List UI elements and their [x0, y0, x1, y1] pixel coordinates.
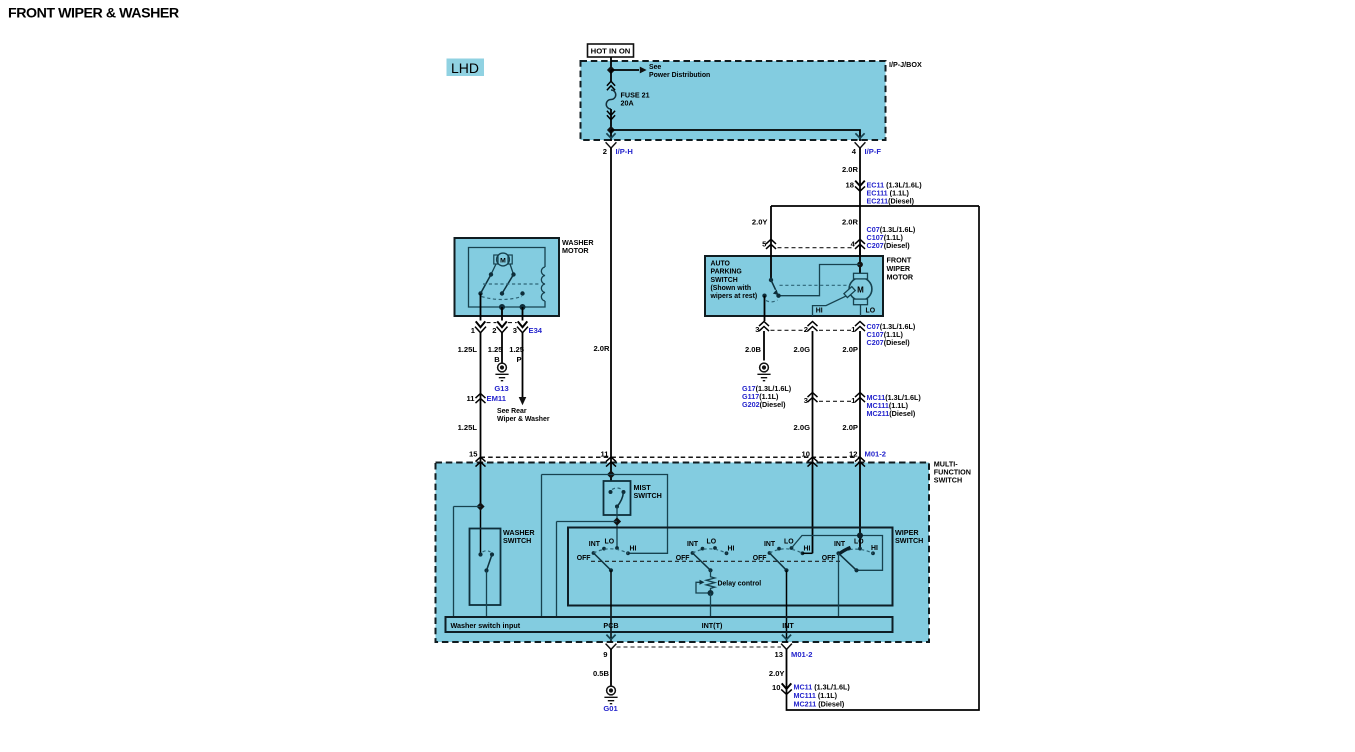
- motor brush tab top: [854, 273, 868, 279]
- motor brush tabs: [494, 255, 498, 264]
- wire from HOT IN ON down: [610, 57, 612, 70]
- svg-text:2.0P: 2.0P: [842, 345, 858, 354]
- washer motor coil: [541, 267, 545, 301]
- contact dot g4 lower: [854, 568, 858, 572]
- svg-text:See Rear: See Rear: [497, 408, 527, 415]
- svg-text:P: P: [516, 355, 521, 364]
- svg-text:LHD: LHD: [451, 60, 479, 76]
- svg-text:G13: G13: [494, 384, 508, 393]
- pin 13 box exit: [781, 635, 792, 650]
- svg-text:18: 18: [846, 180, 854, 189]
- wire bus inside I/P box: [611, 130, 860, 141]
- dashed arc g2: [693, 549, 727, 553]
- park switch contacts lower: [762, 294, 766, 298]
- arrow See Power Distribution: [640, 67, 647, 74]
- mist switch dashed arc: [612, 488, 622, 490]
- wire washer branch left: [454, 507, 481, 618]
- washer switch contacts: [478, 552, 482, 556]
- wiper switch box: [568, 528, 893, 606]
- wire pin4 into motor: [859, 245, 861, 274]
- contacts g1: [592, 551, 596, 555]
- svg-text:11: 11: [466, 394, 475, 403]
- wire arm g3 to INT: [786, 570, 788, 642]
- fuse FUSE 21 20A symbol: [606, 81, 616, 130]
- mist switch box: [604, 481, 631, 515]
- wire 1.25L down to EM11: [480, 333, 482, 507]
- wire 2.0B to ground: [763, 331, 765, 361]
- washer switch box: [470, 529, 501, 606]
- motor M circle (front wiper): [849, 278, 872, 301]
- node junction below HOT IN ON: [607, 66, 615, 74]
- tie line connectors 5-4: [778, 247, 854, 249]
- motor M circle (washer): [497, 253, 510, 266]
- wire down to pin 2: [610, 130, 612, 141]
- svg-text:3: 3: [804, 396, 808, 405]
- connector C07 labels (lower): [867, 322, 916, 347]
- svg-text:20A: 20A: [621, 99, 634, 108]
- svg-text:INT(T): INT(T): [702, 621, 723, 630]
- svg-text:LO: LO: [784, 539, 794, 546]
- contacts g3: [768, 551, 772, 555]
- svg-text:MOTOR: MOTOR: [887, 272, 914, 281]
- svg-text:Power Distribution: Power Distribution: [649, 72, 710, 79]
- wire pin13 down: [786, 649, 788, 694]
- tie line pins 9-13: [617, 646, 782, 648]
- wiper switch label: [895, 528, 923, 545]
- switch arms (washer motor): [481, 275, 514, 294]
- node junction pin11: [607, 470, 615, 478]
- svg-text:LO: LO: [866, 308, 876, 315]
- svg-text:INT: INT: [589, 541, 601, 548]
- svg-text:HOT IN ON: HOT IN ON: [591, 47, 631, 56]
- svg-text:G01: G01: [603, 704, 618, 713]
- svg-text:M: M: [500, 258, 506, 265]
- svg-text:wipers at rest): wipers at rest): [710, 293, 758, 300]
- ground G13: [495, 363, 508, 381]
- washer motor inner frame: [469, 248, 546, 308]
- dashed arc g4: [839, 549, 874, 553]
- svg-text:G202(Diesel): G202(Diesel): [742, 400, 786, 409]
- svg-text:2: 2: [804, 325, 808, 334]
- wire top rail to right loop: [771, 205, 979, 207]
- svg-text:9: 9: [603, 650, 607, 659]
- washer switch lower contact: [484, 568, 488, 572]
- wire pin10 column inside MFS: [812, 462, 814, 554]
- svg-text:SWITCH: SWITCH: [503, 536, 531, 545]
- wire washer pin1: [480, 294, 482, 321]
- wire mist out: [616, 507, 618, 549]
- pin1 symbol: [855, 322, 865, 332]
- wire washer pin2: [501, 307, 503, 321]
- svg-text:Washer switch input: Washer switch input: [451, 621, 521, 630]
- contacts g2: [691, 551, 695, 555]
- svg-text:MC211 (Diesel): MC211 (Diesel): [794, 700, 845, 709]
- svg-text:11: 11: [600, 450, 609, 459]
- washer switch arm: [487, 555, 493, 571]
- svg-text:I/P-J/BOX: I/P-J/BOX: [889, 60, 922, 69]
- connector 12 symbol: [855, 457, 865, 467]
- wiper switch gang 3 (INT): [753, 533, 883, 643]
- washer motor block: [455, 238, 560, 316]
- svg-text:I/P-H: I/P-H: [616, 147, 633, 156]
- wire to See Power Distribution: [611, 69, 639, 71]
- multi-function switch block: [436, 463, 930, 643]
- svg-text:HI: HI: [816, 308, 823, 315]
- wire 1.25B down to G13: [501, 333, 503, 363]
- svg-text:OFF: OFF: [753, 555, 767, 562]
- svg-text:FRONT WIPER & WASHER: FRONT WIPER & WASHER: [8, 6, 179, 22]
- connector 4 symbol: [855, 239, 865, 249]
- wire LO brush out: [860, 305, 862, 316]
- wire pin9 to ground: [610, 649, 612, 686]
- pin 2 I/P-H box exit: [606, 133, 617, 148]
- mechanical dashed link: [483, 283, 541, 285]
- wire washer switch out: [486, 571, 488, 618]
- svg-text:2.0G: 2.0G: [794, 345, 811, 354]
- ground G17 labels: [742, 384, 792, 409]
- connector C07 labels (upper): [867, 225, 916, 250]
- connector 10 symbol: [808, 457, 818, 467]
- connector EC11 labels: [867, 181, 923, 206]
- auto parking switch label: [710, 260, 758, 300]
- park switch contact top: [769, 278, 773, 282]
- wire park switch to motor node: [779, 265, 861, 296]
- wire pin11 column inside MFS: [610, 462, 612, 482]
- svg-text:1.25: 1.25: [509, 345, 525, 354]
- svg-text:OFF: OFF: [822, 555, 836, 562]
- motor brush tab bottom: [854, 299, 868, 305]
- wire washer pin3: [522, 307, 524, 321]
- arrow see rear wiper washer: [519, 397, 527, 405]
- svg-text:2.0Y: 2.0Y: [769, 669, 785, 678]
- svg-text:PARKING: PARKING: [711, 269, 742, 276]
- tie line E34: [487, 322, 517, 324]
- ground G01: [604, 686, 617, 704]
- svg-text:2.0R: 2.0R: [593, 344, 610, 353]
- wire pin15 column inside MFS: [480, 462, 482, 507]
- wire pin10 to HI contact: [803, 552, 813, 554]
- ground G17: [757, 363, 770, 381]
- mist switch contacts: [609, 490, 613, 494]
- svg-text:1.25: 1.25: [488, 345, 504, 354]
- LHD badge: [447, 59, 485, 77]
- dashed arc g3: [770, 549, 803, 553]
- svg-text:1.25L: 1.25L: [458, 423, 478, 432]
- HOT IN ON box: [588, 44, 634, 57]
- svg-text:13: 13: [775, 650, 783, 659]
- wire pin11 branch left: [542, 475, 612, 618]
- tie line MFS top connectors: [481, 456, 862, 458]
- wire pin12 column inside MFS: [859, 462, 861, 549]
- wire LO g3 to LO rail: [792, 536, 883, 571]
- connector EM11 symbol: [476, 394, 486, 404]
- svg-text:Wiper & Washer: Wiper & Washer: [497, 416, 550, 423]
- svg-text:OFF: OFF: [676, 555, 690, 562]
- svg-text:HI: HI: [871, 545, 878, 552]
- mist switch arm: [617, 492, 624, 507]
- svg-text:10: 10: [772, 683, 780, 692]
- wire delay to INT(T): [710, 593, 712, 617]
- front wiper motor label: [887, 255, 914, 281]
- wire park left contact down: [764, 296, 766, 321]
- gang dashed line: [591, 560, 842, 562]
- wire 2.0Y into park switch: [770, 255, 772, 280]
- tie line motor connector: [771, 329, 854, 331]
- thin arm g4: [839, 553, 857, 570]
- svg-text:M01-2: M01-2: [865, 450, 887, 459]
- svg-text:INT: INT: [782, 621, 794, 630]
- wire right loop: [787, 206, 980, 710]
- svg-text:1.25L: 1.25L: [458, 345, 478, 354]
- connector MC11: pin3 symbol: [808, 393, 818, 403]
- svg-text:EM11: EM11: [487, 394, 507, 403]
- svg-text:12: 12: [849, 450, 857, 459]
- svg-text:LO: LO: [854, 539, 864, 546]
- dashed arc g1: [594, 549, 629, 553]
- mist switch lower contact: [615, 505, 619, 509]
- terminal dots: [499, 304, 505, 310]
- contact dots lower: [478, 291, 482, 295]
- mist switch label: [634, 483, 662, 500]
- svg-text:2.0Y: 2.0Y: [752, 217, 768, 226]
- svg-text:INT: INT: [687, 541, 699, 548]
- resistor delay control: [706, 570, 715, 593]
- I/P-J/BOX block: [581, 61, 886, 140]
- wire 2.0Y drop: [770, 206, 772, 280]
- node junction motor feed: [857, 262, 863, 268]
- svg-text:M: M: [857, 285, 864, 294]
- svg-text:HI: HI: [804, 545, 811, 552]
- park switch dashed arc: [766, 300, 778, 302]
- svg-text:SWITCH: SWITCH: [711, 277, 738, 284]
- delay feedback loop with arrow: [696, 582, 711, 593]
- pin 9 box exit: [606, 635, 617, 650]
- connector MC11 bottom symbol: [781, 683, 792, 694]
- svg-text:LO: LO: [605, 539, 615, 546]
- svg-text:SWITCH: SWITCH: [934, 475, 962, 484]
- mechanical dashed arc: [482, 297, 523, 300]
- motor brush HI (diagonal): [844, 287, 855, 298]
- wire motor to contacts: [491, 264, 514, 275]
- svg-text:SWITCH: SWITCH: [895, 536, 923, 545]
- svg-text:2.0R: 2.0R: [842, 217, 859, 226]
- washer switch dashed arc: [483, 551, 491, 552]
- svg-text:2: 2: [603, 147, 607, 156]
- svg-text:2.0P: 2.0P: [842, 423, 858, 432]
- svg-text:OFF: OFF: [577, 555, 591, 562]
- svg-text:MOTOR: MOTOR: [562, 246, 589, 255]
- wire pivot g4 down: [838, 553, 840, 617]
- connector MC11 labels bottom: [794, 683, 851, 709]
- wire arm g1 to PCB: [610, 570, 612, 642]
- connector E34 goblets: [475, 327, 486, 333]
- node junction LO rail / pin12: [857, 533, 863, 539]
- delay node dot: [708, 590, 714, 596]
- mechanical dashed link to motor: [780, 284, 850, 286]
- pin 4 I/P-F box exit: [855, 133, 866, 148]
- svg-text:C207(Diesel): C207(Diesel): [867, 241, 911, 250]
- arm g3: [770, 553, 787, 570]
- connector MC11 labels: [867, 393, 922, 418]
- connector 11 symbol: [606, 457, 616, 467]
- pin1 symbol: [855, 393, 865, 403]
- connector 5 symbol: [766, 239, 776, 249]
- pin2 symbol: [808, 322, 818, 332]
- washer switch label: [503, 528, 535, 545]
- wire 2.0P column: [859, 331, 861, 549]
- svg-text:SWITCH: SWITCH: [634, 491, 662, 500]
- connector C07 lower: pin3 symbol: [759, 322, 769, 332]
- svg-text:LO: LO: [707, 539, 717, 546]
- svg-text:Delay control: Delay control: [718, 581, 762, 588]
- wire I/P-H feed column 2.0R: [610, 148, 612, 481]
- svg-text:INT: INT: [834, 541, 846, 548]
- wire HI brush out: [813, 296, 846, 316]
- svg-text:10: 10: [802, 450, 810, 459]
- svg-text:3: 3: [513, 326, 517, 335]
- tie line MC connector: [819, 400, 853, 402]
- svg-text:See: See: [649, 64, 661, 71]
- arm g1: [594, 553, 612, 570]
- svg-text:3: 3: [755, 325, 759, 334]
- svg-text:E34: E34: [529, 326, 543, 335]
- svg-text:INT: INT: [764, 541, 776, 548]
- wire I/P-F feed down: [859, 148, 861, 265]
- contact dots upper: [489, 272, 493, 276]
- svg-text:AUTO: AUTO: [711, 260, 731, 267]
- svg-text:(Shown with: (Shown with: [711, 285, 752, 292]
- svg-text:2.0G: 2.0G: [794, 423, 811, 432]
- switch plate bar: [446, 617, 893, 632]
- svg-text:B: B: [494, 355, 500, 364]
- wire washer feed into box: [480, 507, 482, 555]
- multi-function switch label: [934, 460, 971, 485]
- node junction washer feed: [476, 502, 484, 510]
- svg-text:M01-2: M01-2: [791, 650, 813, 659]
- svg-text:2: 2: [492, 326, 496, 335]
- svg-text:PCB: PCB: [603, 621, 618, 630]
- svg-text:MC211(Diesel): MC211(Diesel): [867, 409, 916, 418]
- thick arm g4: [839, 547, 851, 554]
- contacts g4: [836, 551, 840, 555]
- svg-text:I/P-F: I/P-F: [865, 147, 882, 156]
- arm g2: [693, 553, 711, 570]
- svg-text:2.0R: 2.0R: [842, 165, 859, 174]
- wire 2.0G column: [812, 331, 814, 553]
- connector 18 symbol: [855, 181, 865, 192]
- wire mist branch left: [557, 522, 618, 618]
- svg-text:15: 15: [469, 450, 478, 459]
- svg-text:HI: HI: [728, 545, 735, 552]
- arrow heads into connector E34: [476, 321, 486, 327]
- park switch arm with arrow: [771, 280, 776, 290]
- fuse F21 wire top: [610, 70, 612, 81]
- node junction above box exit: [607, 126, 615, 134]
- node junction mist out: [613, 517, 621, 525]
- svg-text:0.5B: 0.5B: [593, 669, 610, 678]
- wiper switch gang 4: [822, 539, 878, 617]
- svg-text:EC211(Diesel): EC211(Diesel): [867, 197, 915, 206]
- connector 15 symbol: [476, 457, 486, 467]
- wiper switch gang 1 (PCB): [577, 539, 637, 643]
- wire pin11 branch right to HI: [611, 475, 668, 554]
- svg-text:HI: HI: [630, 545, 637, 552]
- auto parking switch block: [705, 256, 883, 316]
- svg-text:2.0B: 2.0B: [745, 345, 762, 354]
- svg-text:C207(Diesel): C207(Diesel): [867, 338, 911, 347]
- wire 1.25P down to rear washer: [522, 333, 524, 397]
- wiper switch gang 2 (INT T): [676, 539, 762, 617]
